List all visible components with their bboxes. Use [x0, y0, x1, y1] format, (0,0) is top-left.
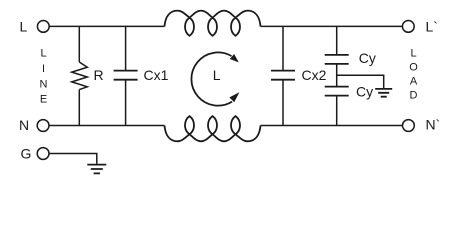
resistor R branch wires — [78, 26, 80, 125]
svg-text:N`: N` — [426, 117, 441, 133]
wire Cy midpoint to ground — [337, 75, 384, 88]
terminal G circle — [37, 148, 49, 160]
terminal L' circle — [402, 21, 414, 33]
wire G to ground — [49, 154, 97, 164]
capacitor Cx2 wires — [282, 26, 284, 125]
svg-text:N: N — [40, 78, 48, 90]
terminal L circle — [37, 21, 49, 33]
wire top rail left — [49, 25, 165, 27]
capacitor Cy top plates — [325, 55, 349, 64]
wire bottom rail right — [261, 125, 403, 127]
svg-text:E: E — [40, 94, 47, 106]
svg-text:L: L — [40, 48, 46, 60]
svg-text:L: L — [213, 67, 221, 83]
capacitor Cx2 plates — [271, 71, 295, 80]
choke rotation arrow arc — [191, 52, 232, 105]
svg-text:A: A — [410, 75, 418, 87]
svg-text:L: L — [410, 48, 416, 60]
svg-text:Cy: Cy — [359, 50, 376, 66]
svg-text:Cx2: Cx2 — [302, 67, 327, 83]
svg-text:O: O — [409, 62, 418, 74]
arrowhead bottom — [229, 92, 239, 102]
svg-text:L: L — [20, 18, 28, 34]
svg-text:Cy: Cy — [356, 83, 373, 99]
svg-text:L`: L` — [426, 18, 438, 34]
svg-text:Cx1: Cx1 — [144, 67, 169, 83]
wire top rail right — [261, 25, 403, 27]
wire bottom rail left — [49, 125, 165, 127]
capacitor Cy bottom wire — [336, 96, 338, 126]
inductor L1 top coil — [165, 11, 261, 36]
capacitor Cx1 plates — [114, 71, 138, 80]
capacitor Cx1 wires — [125, 26, 127, 125]
capacitor Cy bottom plates — [325, 87, 349, 96]
inductor L1 bottom coil — [165, 116, 261, 141]
terminal N circle — [37, 120, 49, 132]
svg-text:G: G — [21, 146, 32, 162]
ground (G) — [87, 165, 106, 174]
terminal N' circle — [403, 120, 415, 132]
resistor R zigzag — [72, 62, 88, 90]
svg-text:D: D — [410, 89, 418, 101]
svg-text:I: I — [42, 63, 45, 75]
svg-text:R: R — [94, 67, 104, 83]
arrowhead top — [230, 54, 239, 62]
svg-text:N: N — [19, 117, 29, 133]
capacitor Cy top wires — [336, 26, 338, 86]
ground (Cy) — [375, 89, 392, 97]
